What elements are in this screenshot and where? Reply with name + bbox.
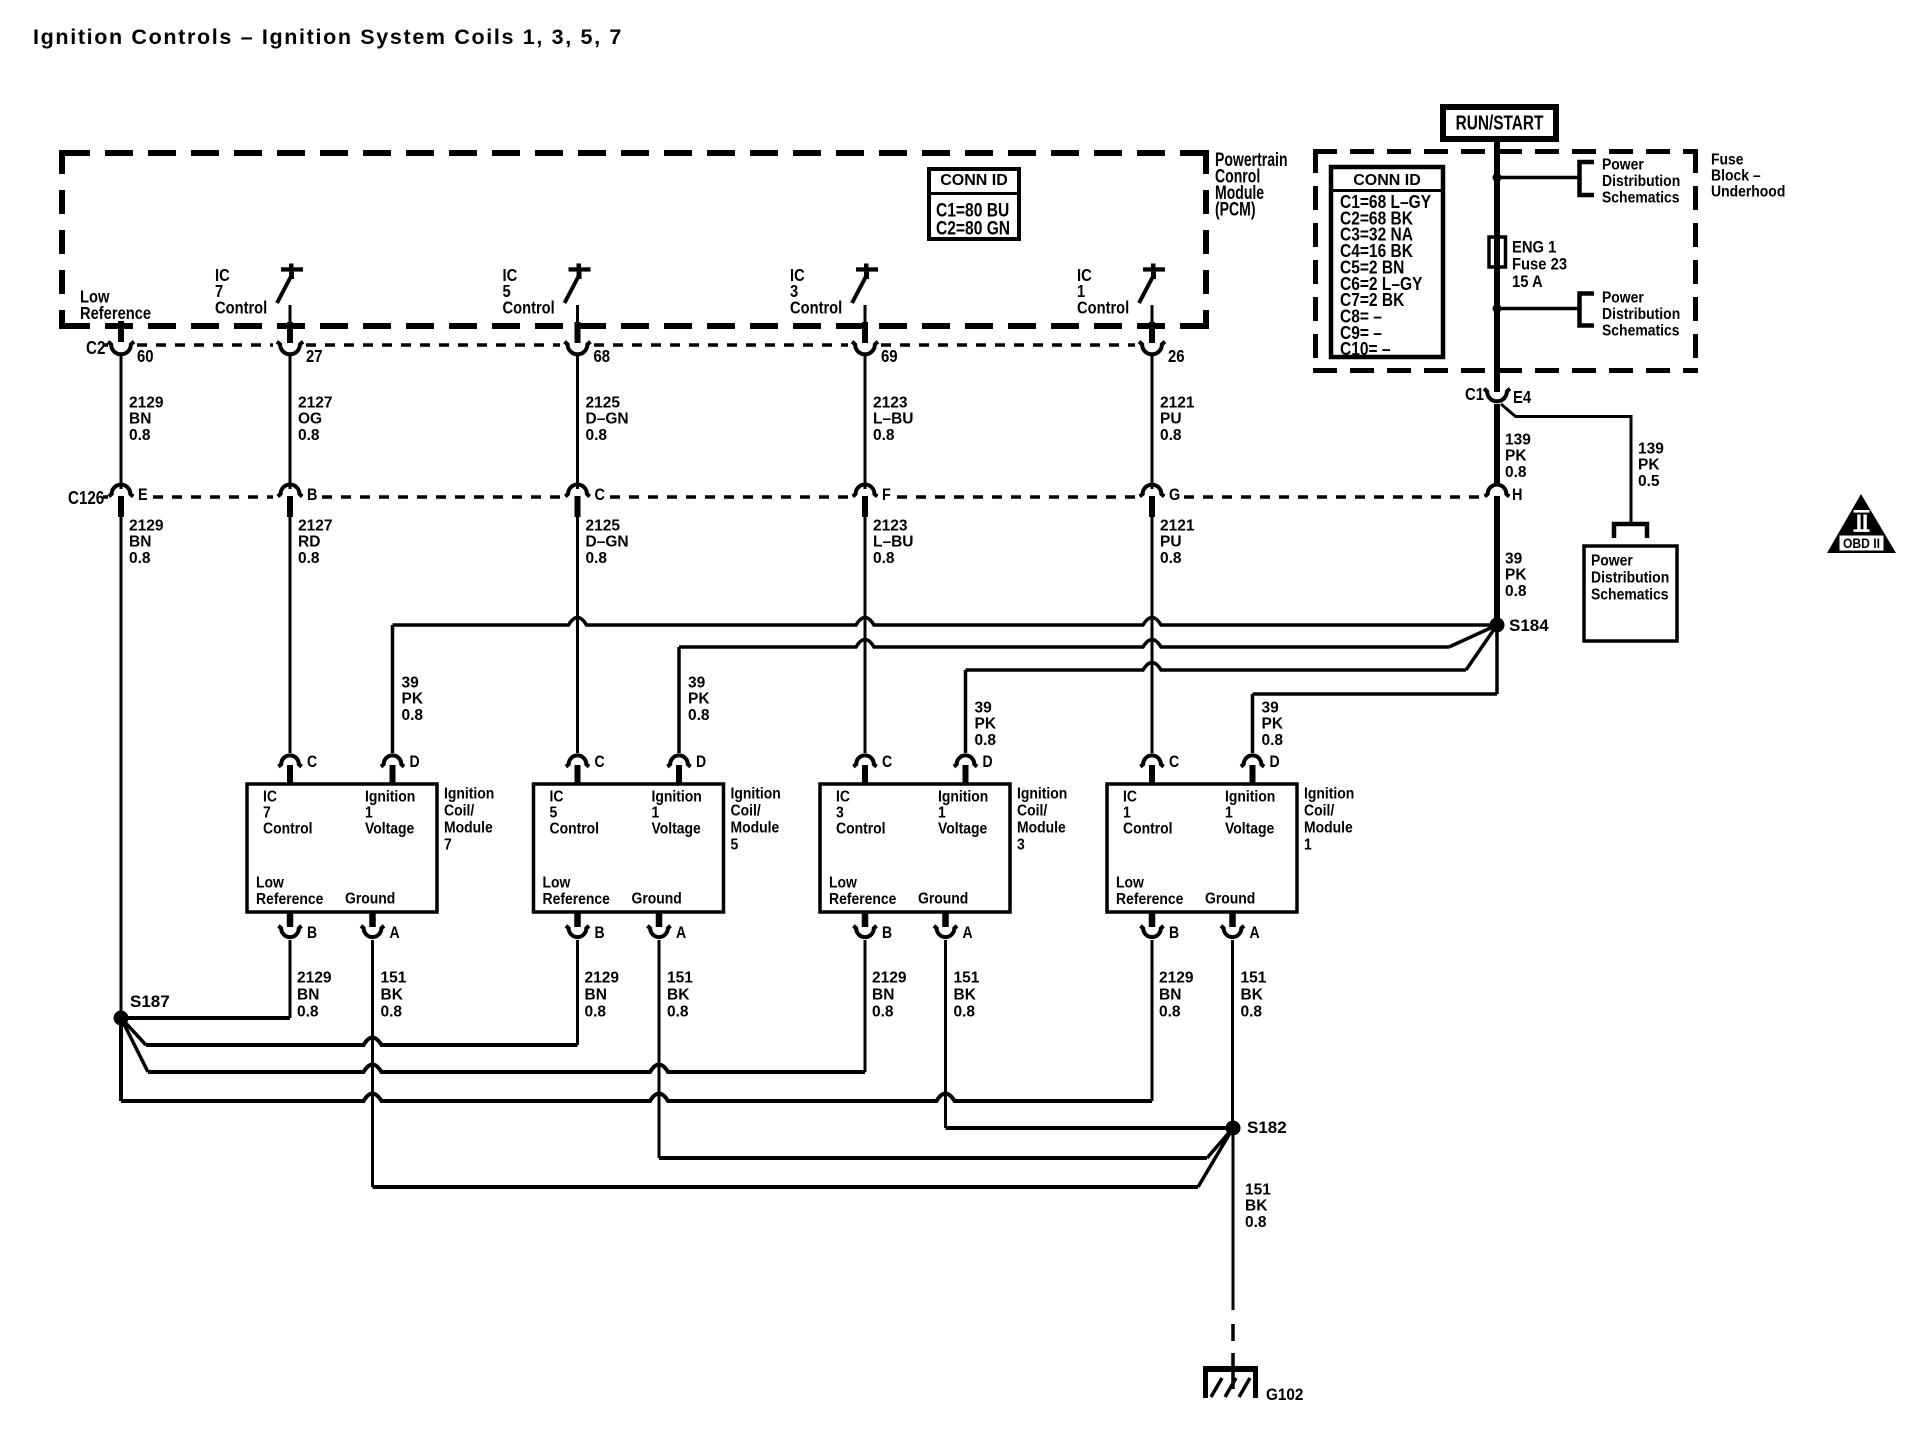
svg-text:F: F [882,486,891,504]
wire IC 7 control to coil module [289,517,292,753]
wire coil 5 A ground [658,940,661,1158]
svg-text:68: 68 [594,347,611,366]
svg-text:Module: Module [731,820,780,837]
off-page bracket upper [1580,162,1595,195]
svg-text:0.8: 0.8 [381,1003,403,1020]
svg-text:D: D [1270,753,1280,771]
svg-text:IC: IC [263,789,277,806]
svg-text:E4: E4 [1513,388,1531,407]
svg-text:S187: S187 [130,992,170,1011]
bus S187 to coil 7 B [121,1016,290,1020]
svg-text:C10= –: C10= – [1340,339,1391,360]
svg-text:0.8: 0.8 [585,1003,607,1020]
wire IC 5 C2 to C126 [576,356,579,489]
PCM module dashed box [62,150,1206,156]
ignition coil module 5 box [534,784,724,912]
svg-text:RUN/START: RUN/START [1456,112,1544,134]
svg-text:0.8: 0.8 [1160,427,1182,444]
svg-text:Distribution: Distribution [1602,173,1680,190]
svg-text:0.8: 0.8 [954,1003,976,1020]
svg-text:Control: Control [836,821,886,838]
svg-text:A: A [1250,924,1260,942]
connector coil 5 pin B [574,912,581,927]
wire ignition voltage to coil 5 pin D [677,647,681,753]
svg-text:151: 151 [1241,969,1267,986]
svg-text:L–BU: L–BU [873,534,913,551]
svg-text:Distribution: Distribution [1602,306,1680,323]
RUN/START feed box [1443,107,1556,139]
svg-text:RD: RD [298,534,320,551]
svg-text:S182: S182 [1247,1118,1287,1137]
svg-text:Voltage: Voltage [1225,821,1274,838]
svg-text:7: 7 [263,805,271,822]
svg-text:Ignition: Ignition [652,789,702,806]
wire coil 3 B down [864,940,867,1072]
connector C126 pin F [853,484,878,496]
svg-text:IC: IC [836,789,850,806]
svg-text:Coil/: Coil/ [1304,803,1334,820]
svg-text:151: 151 [954,969,980,986]
svg-text:0.8: 0.8 [975,732,997,749]
fuse ENG 1 Fuse 23 15 A [1489,237,1506,267]
svg-text:L–BU: L–BU [873,411,913,428]
svg-text:39: 39 [402,674,420,691]
wire IC 1 control to coil module [1151,517,1154,753]
svg-text:Schematics: Schematics [1591,587,1668,604]
svg-text:0.8: 0.8 [586,427,608,444]
ignition coil module 7 box [247,784,437,912]
wire Low Reference C2 to C126 [120,356,123,489]
svg-text:1: 1 [365,805,373,822]
svg-text:CONN ID: CONN ID [1353,172,1421,189]
svg-text:Ground: Ground [345,891,395,908]
wire coil 7 A ground [371,940,374,1187]
node S187 [114,1011,129,1026]
svg-text:Reference: Reference [829,891,896,908]
svg-text:Schematics: Schematics [1602,190,1679,207]
svg-text:2121: 2121 [1160,517,1195,534]
svg-text:Ignition: Ignition [1017,786,1067,803]
svg-text:0.8: 0.8 [297,1003,319,1020]
svg-text:0.8: 0.8 [129,427,151,444]
svg-text:Ground: Ground [918,891,968,908]
connector C126 pin E [109,485,134,497]
svg-text:PU: PU [1160,411,1182,428]
svg-text:Low: Low [256,875,284,892]
svg-text:151: 151 [381,969,407,986]
svg-text:A: A [963,924,973,942]
wire coil 3 A ground [944,940,947,1128]
ignition coil module 3 box [820,784,1010,912]
svg-text:Coil/: Coil/ [731,803,761,820]
svg-text:Control: Control [1077,298,1129,317]
wire IC 7 C2 to C126 [289,356,292,489]
svg-text:Voltage: Voltage [652,821,701,838]
svg-text:Distribution: Distribution [1591,570,1669,587]
svg-text:D: D [410,753,420,771]
svg-text:Module: Module [444,820,493,837]
svg-text:5: 5 [731,837,739,854]
svg-text:B: B [1169,924,1179,942]
svg-text:0.8: 0.8 [1245,1214,1267,1231]
svg-text:151: 151 [667,969,693,986]
connector C126 pin C [565,484,590,496]
bus S187 to coil 1 B [119,1018,123,1101]
svg-text:Control: Control [790,298,842,317]
wire 139 PK 0.8 down to H [1494,404,1500,485]
svg-text:G: G [1169,486,1180,504]
svg-text:1: 1 [1123,805,1131,822]
svg-text:PK: PK [1505,448,1527,465]
svg-text:Ignition: Ignition [1225,789,1275,806]
C126 connector dashed row [103,495,108,499]
svg-text:OG: OG [298,411,322,428]
svg-text:Low: Low [829,875,857,892]
connector C126 pin G [1140,485,1165,497]
svg-text:D: D [696,753,706,771]
wire RUN/START feed [1494,139,1500,373]
svg-text:BK: BK [1245,1198,1268,1215]
svg-text:D–GN: D–GN [586,411,629,428]
svg-text:0.8: 0.8 [298,427,320,444]
connector coil 7 pin B [287,912,294,927]
svg-text:39: 39 [688,674,706,691]
svg-text:CONN ID: CONN ID [940,172,1008,189]
switch IC 3 driver [864,264,869,269]
svg-text:0.8: 0.8 [402,707,424,724]
wire coil 7 B down [289,940,292,1018]
connector coil 7 pin A [369,912,376,927]
wire coil 1 A down to S182 [1231,940,1234,1128]
svg-text:B: B [307,486,317,504]
wire IC 5 control to coil module [576,517,579,753]
node S182 [1226,1121,1241,1136]
svg-text:2127: 2127 [298,394,332,411]
wire coil 5 B down [576,940,579,1045]
junction dot fuse feed lower [1493,304,1502,313]
connector C1 pin E4 [1494,373,1500,392]
connector coil 3 pin B [862,912,869,927]
svg-text:Coil/: Coil/ [1017,803,1047,820]
svg-text:BK: BK [381,986,404,1003]
CONN ID table (PCM) [929,169,1019,239]
svg-text:39: 39 [1505,550,1523,567]
svg-text:PK: PK [975,716,997,733]
OBD II symbol [1827,494,1896,553]
svg-text:Ignition: Ignition [1304,786,1354,803]
svg-text:2123: 2123 [873,394,908,411]
svg-text:0.8: 0.8 [1159,1003,1181,1020]
svg-text:Block –: Block – [1711,168,1761,185]
svg-text:C2=80 GN: C2=80 GN [936,217,1010,239]
ignition coil module 1 box [1107,784,1297,912]
svg-text:BN: BN [129,411,151,428]
bus S184 to coil 7 D [393,618,1498,626]
svg-text:2129: 2129 [872,969,907,986]
svg-text:Reference: Reference [543,891,610,908]
svg-text:B: B [595,924,605,942]
svg-text:Control: Control [263,821,313,838]
svg-text:Fuse 23: Fuse 23 [1512,256,1567,274]
svg-text:Voltage: Voltage [938,821,987,838]
svg-text:PK: PK [1262,716,1284,733]
svg-text:H: H [1512,486,1522,504]
svg-text:BN: BN [872,986,894,1003]
CONN ID table (fuse block) [1331,167,1443,357]
ground G102 symbol [1231,1353,1235,1389]
svg-text:(PCM): (PCM) [1215,198,1256,220]
svg-text:1: 1 [1304,837,1312,854]
bus S184 to coil 5 D [679,640,1449,648]
svg-text:Control: Control [503,298,555,317]
wire coil 1 B down [1151,940,1154,1101]
svg-text:0.8: 0.8 [586,550,608,567]
svg-text:Reference: Reference [256,891,323,908]
svg-text:PK: PK [402,691,424,708]
svg-text:0.5: 0.5 [1638,473,1660,490]
svg-text:0.8: 0.8 [667,1003,689,1020]
svg-text:Power: Power [1602,157,1644,174]
svg-text:Underhood: Underhood [1711,184,1785,201]
svg-text:0.8: 0.8 [1262,732,1284,749]
svg-text:Ground: Ground [1205,891,1255,908]
connector coil 1 pin A [1229,912,1236,927]
svg-text:C: C [595,753,605,771]
connector C126 pin B [278,485,303,497]
svg-text:D–GN: D–GN [586,534,629,551]
svg-text:PK: PK [1638,457,1660,474]
connector coil 5 pin C [566,755,589,766]
connector C2 pin 26 (IC 1) [1149,322,1155,343]
svg-text:26: 26 [1168,347,1185,366]
connector C2 pin 27 (IC 7) [287,322,293,343]
branch wire 139 PK 0.5 [1501,404,1631,523]
svg-text:D: D [983,753,993,771]
svg-text:Control: Control [215,298,267,317]
svg-text:39: 39 [1262,699,1280,716]
svg-text:1: 1 [1225,805,1233,822]
svg-text:0.8: 0.8 [873,550,895,567]
svg-text:2123: 2123 [873,517,908,534]
bus S184 to coil 1 D [1495,625,1499,694]
svg-text:C: C [307,753,317,771]
svg-text:0.8: 0.8 [873,427,895,444]
off-page bracket into PDS box [1614,524,1647,538]
svg-text:B: B [882,924,892,942]
connector coil 1 pin C [1140,755,1163,766]
svg-text:Schematics: Schematics [1602,323,1679,340]
svg-text:S184: S184 [1509,616,1549,635]
svg-text:C126: C126 [68,488,104,509]
svg-text:BN: BN [129,534,151,551]
svg-text:39: 39 [975,699,993,716]
switch IC 7 driver [289,264,294,269]
svg-text:5: 5 [550,805,558,822]
svg-text:A: A [390,924,400,942]
svg-text:PK: PK [688,691,710,708]
connector coil 5 pin D [667,755,690,766]
svg-text:7: 7 [444,837,452,854]
wire ignition voltage to coil 3 pin D [964,670,968,753]
wire IC 1 C2 to C126 [1151,356,1154,489]
connector coil 3 pin C [853,755,876,766]
svg-text:0.8: 0.8 [1160,550,1182,567]
connector coil 7 pin D [381,755,404,766]
svg-text:G102: G102 [1266,1385,1303,1404]
svg-text:BK: BK [954,986,977,1003]
svg-text:2125: 2125 [586,394,621,411]
svg-text:PK: PK [1505,567,1527,584]
connector C2 pin 68 (IC 5) [575,322,581,343]
switch IC 1 driver [1151,264,1156,269]
svg-text:0.8: 0.8 [1505,583,1527,600]
svg-text:A: A [676,924,686,942]
svg-text:2127: 2127 [298,517,332,534]
svg-text:Ignition: Ignition [444,786,494,803]
svg-text:Module: Module [1017,820,1066,837]
svg-text:IC: IC [1123,789,1137,806]
svg-text:C1: C1 [1465,385,1484,404]
svg-text:1: 1 [652,805,660,822]
svg-text:2125: 2125 [586,517,621,534]
svg-text:2129: 2129 [129,517,164,534]
connector C2 pin 60 (Low Reference) [118,321,124,342]
svg-text:Fuse: Fuse [1711,152,1744,169]
bus S187 to coil 3 B [121,1018,148,1072]
svg-text:Ground: Ground [632,891,682,908]
svg-text:139: 139 [1638,440,1664,457]
connector coil 7 pin C [278,755,301,766]
connector coil 1 pin D [1241,755,1264,766]
svg-text:Ignition: Ignition [365,789,415,806]
connector C126 pin H [1485,485,1510,497]
svg-text:0.8: 0.8 [1505,464,1527,481]
svg-text:Coil/: Coil/ [444,803,474,820]
svg-text:1: 1 [938,805,946,822]
svg-text:IC: IC [550,789,564,806]
wire to power distribution ref upper [1497,176,1578,180]
wire 39 PK 0.8 to S184 [1494,517,1500,625]
svg-text:0.8: 0.8 [688,707,710,724]
svg-text:60: 60 [137,347,154,366]
off-page bracket lower [1580,294,1595,326]
svg-text:C: C [1169,753,1179,771]
svg-text:27: 27 [306,347,323,366]
svg-text:B: B [307,924,317,942]
svg-text:0.8: 0.8 [872,1003,894,1020]
svg-text:Low: Low [543,875,571,892]
switch IC 5 driver [577,264,582,269]
svg-text:PU: PU [1160,534,1182,551]
svg-text:Low: Low [1116,875,1144,892]
svg-text:Reference: Reference [1116,891,1183,908]
svg-text:Module: Module [1304,820,1353,837]
dashed wire segment to G102 [1231,1324,1235,1341]
svg-text:15 A: 15 A [1512,273,1543,291]
wire 151 BK 0.8 to ground [1232,1128,1235,1310]
svg-text:C: C [882,753,892,771]
connector coil 1 pin B [1149,912,1156,927]
bus S184 to coil 3 D [966,663,1467,671]
svg-text:Reference: Reference [80,304,151,323]
svg-text:ENG 1: ENG 1 [1512,239,1556,257]
svg-text:Control: Control [550,821,600,838]
svg-text:Control: Control [1123,821,1173,838]
wire IC 3 C2 to C126 [864,356,867,489]
svg-text:C: C [595,486,605,504]
svg-text:3: 3 [1017,837,1025,854]
svg-text:3: 3 [836,805,844,822]
junction dot fuse feed upper [1493,173,1502,182]
svg-text:BN: BN [297,986,319,1003]
connector coil 3 pin D [954,755,977,766]
svg-text:139: 139 [1505,431,1531,448]
wire IC 3 control to coil module [864,517,867,753]
wire ignition voltage to coil 1 pin D [1251,694,1255,753]
wire low reference down to S187 [120,517,123,1018]
svg-text:0.8: 0.8 [1241,1003,1263,1020]
C2 connector dashed row [103,343,108,347]
svg-text:2121: 2121 [1160,394,1195,411]
Power Distribution Schematics box [1584,546,1677,641]
svg-text:0.8: 0.8 [298,550,320,567]
svg-text:Voltage: Voltage [365,821,414,838]
svg-text:Power: Power [1591,553,1633,570]
svg-text:Ignition: Ignition [938,789,988,806]
svg-text:C2: C2 [86,338,105,359]
svg-text:BN: BN [585,986,607,1003]
bus S187 to coil 5 B [121,1018,146,1045]
svg-text:BK: BK [667,986,690,1003]
connector C2 pin 69 (IC 3) [862,322,868,343]
svg-text:2129: 2129 [585,969,620,986]
svg-text:Power: Power [1602,290,1644,307]
fuse block dashed box [1313,149,1698,154]
svg-text:69: 69 [881,347,898,366]
svg-text:BN: BN [1159,986,1181,1003]
connector coil 5 pin A [656,912,663,927]
wire to power distribution ref lower [1497,307,1578,311]
svg-text:BK: BK [1241,986,1264,1003]
svg-text:E: E [138,486,148,504]
connector coil 3 pin A [942,912,949,927]
svg-text:Ignition: Ignition [731,786,781,803]
svg-text:0.8: 0.8 [129,550,151,567]
svg-text:2129: 2129 [1159,969,1194,986]
node S184 [1490,618,1505,633]
svg-text:Ignition Controls – Ignition S: Ignition Controls – Ignition System Coil… [33,25,623,49]
svg-text:2129: 2129 [129,394,164,411]
svg-text:OBD II: OBD II [1843,535,1880,551]
svg-text:151: 151 [1245,1181,1271,1198]
svg-text:2129: 2129 [297,969,332,986]
wire ignition voltage to coil 7 pin D [391,625,395,753]
